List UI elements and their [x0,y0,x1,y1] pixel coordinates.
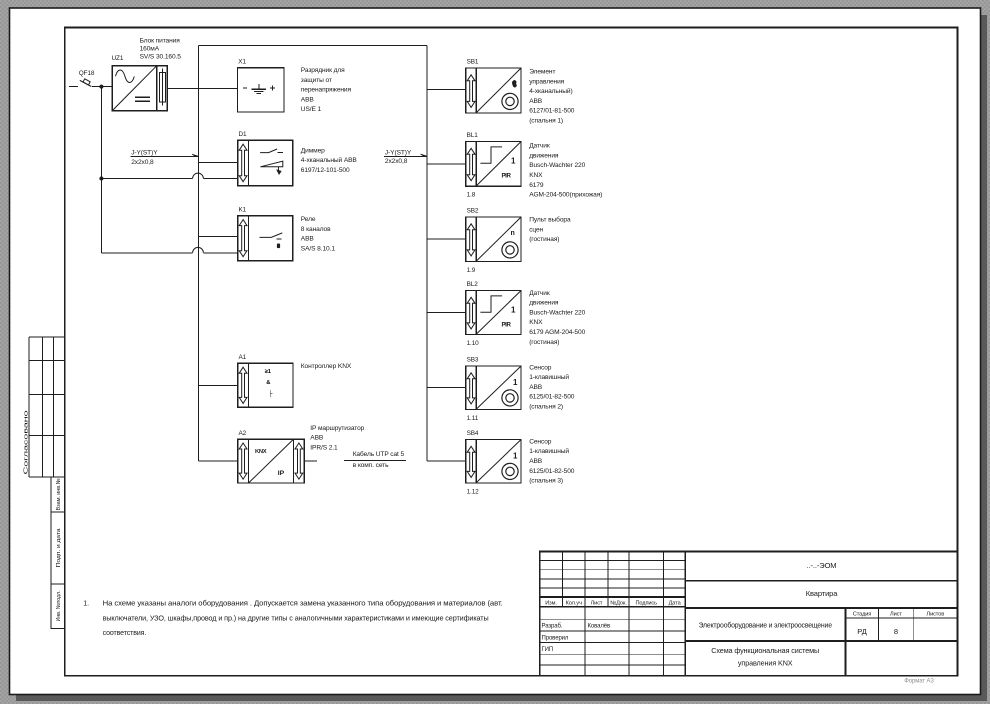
device SB2 box [466,217,521,262]
svg-text:(спальня 2): (спальня 2) [529,404,563,411]
SB2 diagonal [476,217,520,261]
svg-text:KNX: KNX [529,319,543,326]
svg-text:A1: A1 [239,354,247,361]
BL2 symbol [480,296,516,329]
svg-text:Сенсор: Сенсор [529,364,552,371]
svg-text:1-клавишный: 1-клавишный [529,447,569,455]
SB1 bus arrow [467,75,475,108]
svg-text:управления KNX: управления KNX [738,659,793,668]
K1 switch symbol [260,233,283,248]
power supply UZ1 box [112,66,167,111]
title block object name Квартира [806,589,839,598]
margin cell Подп. и дата [51,512,65,584]
junction dot at QF18 output [99,85,103,89]
A2 UTP cable out [304,450,406,469]
label X1 [238,58,246,65]
vertical label Согласовано [24,411,30,475]
svg-text:ГИП: ГИП [542,647,554,653]
device BL1 box [466,142,521,187]
svg-text:управления: управления [529,78,564,85]
label SB4 [467,430,479,437]
svg-text:в комп. сеть: в комп. сеть [353,462,389,469]
svg-text:1: 1 [511,306,516,315]
bus branch to SB2 [427,238,466,240]
svg-text:SV/S 30.160.5: SV/S 30.160.5 [140,54,182,61]
X1 description text [301,67,352,113]
svg-text:сцен: сцен [529,226,543,233]
surge arrester X1 box [238,68,285,112]
svg-text:J-Y(ST)Y: J-Y(ST)Y [385,149,412,156]
svg-text:Датчик: Датчик [529,143,550,150]
wire 220V input dash [69,86,78,88]
title block document code [807,561,837,570]
bus branch to SB3 [427,387,466,389]
SB4 symbol [502,452,518,480]
svg-text:IP: IP [278,470,285,477]
svg-text:Лист: Лист [591,600,603,606]
svg-text:160мА: 160мА [140,46,160,53]
SB2 address label [467,267,476,274]
junction dot at D1 feed branch [99,177,103,181]
svg-text:соответствия.: соответствия. [103,630,147,637]
svg-text:IPR/S 2.1: IPR/S 2.1 [310,444,338,451]
svg-text:1.10: 1.10 [467,340,480,347]
svg-text:UZ1: UZ1 [112,55,124,62]
svg-text:US/E 1: US/E 1 [301,106,322,113]
svg-text:№Док.: №Док. [610,600,627,606]
title block sheet name [711,646,819,667]
device SB1 box [466,68,521,113]
svg-text:Лист: Лист [890,612,902,618]
svg-text:AGM-204-500(прихожая): AGM-204-500(прихожая) [529,192,602,199]
SB2 symbol [502,230,518,258]
SB1 symbol [502,80,518,109]
device BL2 box [466,291,521,335]
svg-text:Изм.: Изм. [545,600,557,606]
svg-text:SB4: SB4 [467,430,479,437]
label K1 [239,206,247,213]
BL2 description text [529,290,585,346]
svg-text:(спальня 1): (спальня 1) [529,118,563,125]
svg-text:РД: РД [857,627,866,636]
svg-text:1.11: 1.11 [467,415,479,422]
bus branch to BL2 [427,312,466,314]
SB2 bus arrow [467,224,475,256]
SB4 address label [467,488,480,495]
svg-text:6125/01-82-500: 6125/01-82-500 [529,468,575,475]
A2 description text [310,425,364,451]
svg-text:Листов: Листов [927,612,945,618]
bus branch to A1 [199,384,238,386]
svg-text:&: & [266,380,270,386]
svg-text:Схема функциональная системы: Схема функциональная системы [711,646,819,655]
svg-text:QF18: QF18 [79,70,95,77]
SB3 address label [467,415,479,422]
UZ1 DC symbol [135,97,150,101]
bus branch to SB1 [427,89,466,91]
KNX bus top horizontal [199,44,428,46]
circuit breaker QF18 [80,79,92,87]
SB1 diagonal [476,68,520,112]
label SB3 [467,356,479,363]
SB2 description text [529,216,571,244]
title block grid [540,552,958,676]
svg-text:1.8: 1.8 [467,192,476,199]
label UZ1 [112,55,124,62]
title block stage header [853,612,944,618]
UZ1 description text [140,37,182,60]
bus branch to SB4 [427,460,466,462]
wire UZ1 output to X1 [167,87,237,89]
BL1 symbol [480,147,516,180]
svg-text:Кабель UTP cat 5: Кабель UTP cat 5 [353,450,405,458]
SB3 diagonal [476,366,520,409]
A1 logic symbols [265,369,274,398]
svg-text:АВВ: АВВ [529,384,543,391]
device SB3 box [466,366,521,410]
svg-text:Подпись: Подпись [635,600,657,606]
svg-text:6197/12-101-500: 6197/12-101-500 [301,167,350,174]
svg-text:8 каналов: 8 каналов [301,226,331,233]
svg-text:Формат А3: Формат А3 [904,678,934,684]
cable label J-Y(ST)Y left with leader [130,149,198,166]
svg-text:IP маршрутизатор: IP маршрутизатор [310,425,364,432]
svg-text:2x2x0,8: 2x2x0,8 [131,159,154,166]
title block signature rows [542,624,611,653]
label BL1 [467,132,479,139]
svg-text:Инв. №подл.: Инв. №подл. [55,590,62,621]
svg-text:Диммер: Диммер [301,147,325,154]
svg-text:Контроллер KNX: Контроллер KNX [301,363,352,370]
KNX bus left vertical [199,45,238,461]
UZ1 fuse symbol [160,69,166,106]
title block stage values [857,627,898,636]
A2 right bus arrow [295,443,303,479]
svg-text:1: 1 [513,378,518,387]
BL1 description text [529,143,602,199]
D1 bus arrow [239,144,247,182]
SB4 diagonal [476,440,520,483]
svg-text:Разрядник для: Разрядник для [301,67,345,74]
BL1 bus arrow [467,148,475,180]
svg-text:1.: 1. [83,601,89,608]
margin cell Взам. инв.№ [51,477,65,512]
svg-text:4-хканальный): 4-хканальный) [529,87,572,95]
label A1 [239,354,247,361]
svg-text:перенапряжения: перенапряжения [301,87,352,94]
svg-text:1.12: 1.12 [467,488,480,495]
KNX bus right vertical [426,45,428,461]
svg-text:SB1: SB1 [467,58,479,65]
D1 description text [301,147,358,173]
device SB4 box [466,440,521,484]
svg-text:6125/01-82-500: 6125/01-82-500 [529,394,575,401]
svg-text:KNX: KNX [255,449,267,455]
format note under frame [904,678,934,684]
svg-text:Busch-Wachter 220: Busch-Wachter 220 [529,162,585,169]
SB3 bus arrow [467,373,475,404]
svg-text:АВВ: АВВ [310,435,324,442]
K1 bus arrow [239,220,247,257]
svg-text:SB3: SB3 [467,356,479,363]
SB3 description text [529,364,575,410]
BL2 address label [467,340,480,347]
dimmer D1 box [238,140,293,185]
svg-text:АВВ: АВВ [529,98,543,105]
svg-text:Пульт выбора: Пульт выбора [529,216,571,224]
wire QF18 to UZ1 [92,86,113,88]
svg-text:Busch-Wachter 220: Busch-Wachter 220 [529,309,585,316]
BL2 bus arrow [467,297,475,329]
svg-text:1.9: 1.9 [467,267,476,274]
svg-text:Элемент: Элемент [529,69,555,76]
bus branch to D1 [199,161,238,163]
svg-text:Датчик: Датчик [529,290,550,297]
label D1 [239,131,248,138]
svg-text:2x2x0,8: 2x2x0,8 [385,158,408,165]
svg-text:Сенсор: Сенсор [529,438,552,445]
svg-text:n: n [511,230,515,237]
bus branch to BL1 [427,163,466,165]
label SB1 [467,58,479,65]
SB1 description text [529,69,575,125]
svg-text:4-хканальный АВВ: 4-хканальный АВВ [301,156,358,164]
svg-text:PIR: PIR [502,322,512,329]
svg-text:6179 AGM-204-500: 6179 AGM-204-500 [529,329,585,336]
svg-text:Блок питания: Блок питания [140,37,181,44]
svg-text:Проверил: Проверил [542,635,569,641]
svg-text:АВВ: АВВ [301,236,315,243]
wire 220V feed to K1 with hop [101,247,237,252]
A1 bus arrow [239,367,247,403]
svg-text:1-клавишный: 1-клавишный [529,373,569,381]
svg-text:≥1: ≥1 [265,369,272,375]
svg-text:(спальня 3): (спальня 3) [529,478,563,485]
A2 KNX IP symbol [249,439,294,483]
svg-text:Разраб.: Разраб. [542,624,563,630]
svg-text:PIR: PIR [502,173,512,180]
svg-text:Согласовано: Согласовано [24,411,30,475]
label SB2 [467,207,479,214]
relay K1 box [238,216,293,261]
svg-text:BL1: BL1 [467,132,479,139]
svg-text:Подп. и дата: Подп. и дата [56,528,62,568]
title block header texts [545,600,681,606]
wire 220V vertical drop [100,87,102,253]
svg-text:выключатели, УЗО, шкафы,провод: выключатели, УЗО, шкафы,провод и пр.) на… [103,615,489,622]
svg-text:Электрооборудование и электроо: Электрооборудование и электроосвещение [698,622,832,630]
svg-text:(гостиная): (гостиная) [529,236,559,243]
A2 left bus arrow [239,443,247,479]
svg-text:KNX: KNX [529,172,543,179]
svg-text:Стадия: Стадия [853,612,872,618]
svg-text:J-Y(ST)Y: J-Y(ST)Y [131,149,158,156]
cable label J-Y(ST)Y right with leader [384,149,427,165]
svg-text:1: 1 [511,157,516,166]
K1 description text [301,216,336,252]
label QF18 [79,70,95,77]
svg-text:A2: A2 [239,430,247,437]
svg-text:Реле: Реле [301,216,316,223]
svg-text:Кол.уч: Кол.уч [566,600,582,606]
svg-text:АВВ: АВВ [529,458,543,465]
BL2 diagonal [476,291,520,334]
IP router A2 box [238,439,305,483]
svg-text:SB2: SB2 [467,207,479,214]
svg-text:Квартира: Квартира [806,589,839,598]
X1 minus ground plus symbol [243,84,275,93]
title block section name [698,622,832,630]
SB3 symbol [502,378,518,406]
margin cell Инв. №подл. [51,584,65,628]
approval table (left margin) [29,337,65,477]
svg-text:1: 1 [513,452,518,461]
bus branch to K1 [199,235,238,237]
label A2 [239,430,247,437]
svg-text:X1: X1 [238,58,246,65]
D1 switch and dimmer symbol [260,149,283,174]
BL1 diagonal [476,142,520,186]
SB4 description text [529,438,575,484]
UZ1 AC sine symbol [116,70,135,83]
wire 220V feed to D1 with hop [101,173,237,178]
svg-text:На схеме указаны аналоги обору: На схеме указаны аналоги оборудования . … [103,600,503,608]
svg-text:(гостиная): (гостиная) [529,339,559,346]
A1 description text [301,363,352,370]
svg-text:8: 8 [894,627,898,636]
svg-text:Ковалёв: Ковалёв [588,624,611,630]
controller A1 box [238,363,293,407]
svg-text:6179: 6179 [529,182,544,189]
svg-text:движения: движения [529,300,559,307]
svg-text:BL2: BL2 [467,281,479,288]
svg-text:защиты от: защиты от [301,77,332,84]
SB4 bus arrow [467,446,475,477]
svg-text:АВВ: АВВ [301,96,315,103]
svg-text:D1: D1 [239,131,248,138]
BL1 address label [467,192,476,199]
svg-text:движения: движения [529,152,559,159]
label BL2 [467,281,479,288]
svg-text:6127/01-81-500: 6127/01-81-500 [529,108,575,115]
svg-text:SA/S 8.10.1: SA/S 8.10.1 [301,245,336,252]
svg-text:Взам. инв.№: Взам. инв.№ [55,479,62,511]
note 1 text [83,600,502,637]
svg-text:K1: K1 [239,206,247,213]
svg-text:Дата: Дата [669,600,682,606]
svg-text:..-..-ЭОМ: ..-..-ЭОМ [807,561,837,570]
